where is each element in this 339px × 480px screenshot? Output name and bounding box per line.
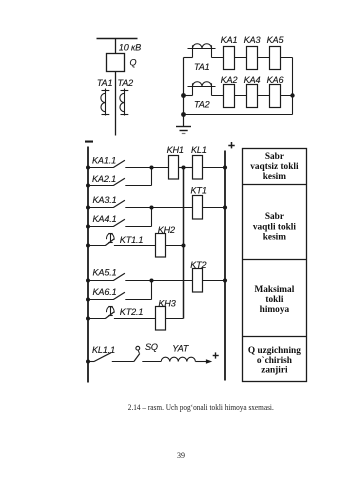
svg-text:KT2.1: KT2.1	[120, 307, 144, 317]
svg-text:KA2: KA2	[221, 75, 238, 85]
svg-text:KA6.1: KA6.1	[93, 287, 117, 297]
svg-text:KT1.1: KT1.1	[120, 235, 144, 245]
svg-text:KA5: KA5	[267, 35, 285, 45]
svg-text:KA2.1: KA2.1	[92, 174, 116, 184]
svg-text:Q: Q	[130, 57, 137, 67]
svg-text:KA3: KA3	[244, 35, 261, 45]
svg-text:KH1: KH1	[167, 145, 184, 155]
svg-text:TA1: TA1	[194, 62, 210, 72]
svg-text:2.14 – rasm. Uch pog‘onali tok: 2.14 – rasm. Uch pog‘onali tokli himoya …	[128, 403, 274, 412]
svg-text:himoya: himoya	[260, 305, 290, 315]
svg-text:YAT: YAT	[172, 343, 190, 353]
svg-text:KT2: KT2	[190, 260, 206, 270]
svg-text:KA5.1: KA5.1	[93, 268, 117, 278]
svg-text:TA2: TA2	[194, 99, 210, 109]
svg-text:KA4: KA4	[244, 75, 261, 85]
svg-text:Q uzgichning: Q uzgichning	[248, 346, 301, 356]
svg-text:TA2: TA2	[118, 78, 134, 88]
svg-text:10 кВ: 10 кВ	[119, 42, 141, 52]
svg-text:vaqtsiz tokli: vaqtsiz tokli	[250, 162, 299, 172]
svg-text:KH3: KH3	[158, 299, 175, 309]
svg-text:KA1.1: KA1.1	[92, 155, 116, 165]
svg-text:KA1: KA1	[221, 35, 238, 45]
svg-text:Maksimal: Maksimal	[255, 285, 295, 295]
svg-text:TA1: TA1	[97, 78, 113, 88]
svg-text:zanjiri: zanjiri	[261, 366, 288, 376]
svg-text:KA3.1: KA3.1	[93, 195, 117, 205]
svg-text:kesim: kesim	[263, 172, 286, 182]
svg-text:KL1.1: KL1.1	[92, 345, 115, 355]
svg-text:KA4.1: KA4.1	[93, 214, 117, 224]
svg-text:o`chirish: o`chirish	[257, 355, 293, 366]
svg-text:KT1: KT1	[191, 186, 207, 196]
svg-text:Sabr: Sabr	[265, 212, 284, 222]
svg-text:KH2: KH2	[158, 225, 175, 235]
svg-text:vaqtli tokli: vaqtli tokli	[253, 222, 297, 232]
svg-text:kesim: kesim	[263, 233, 286, 243]
svg-text:tokli: tokli	[265, 295, 283, 305]
svg-text:39: 39	[177, 451, 185, 460]
svg-text:SQ: SQ	[145, 342, 158, 352]
svg-text:Sabr: Sabr	[265, 152, 284, 162]
svg-text:KL1: KL1	[191, 145, 207, 155]
svg-text:KA6: KA6	[267, 75, 285, 85]
